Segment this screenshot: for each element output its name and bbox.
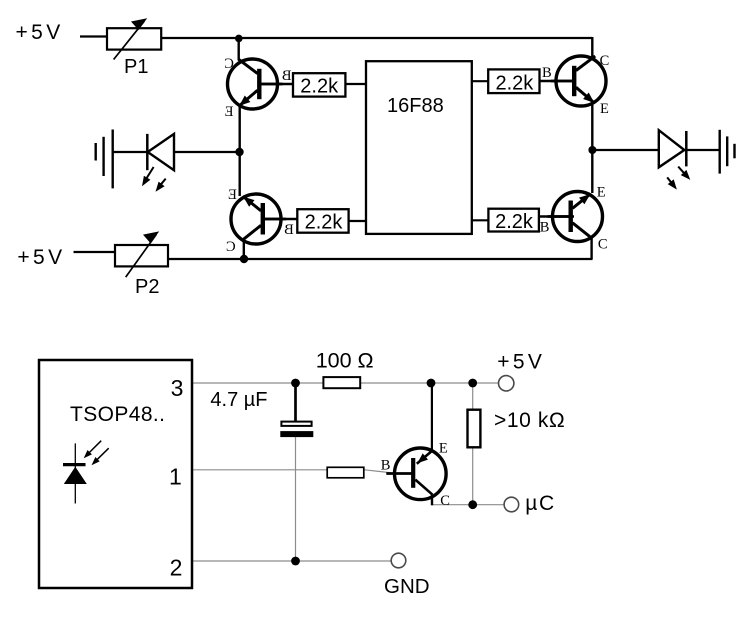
svg-text:P2: P2 — [135, 276, 159, 298]
svg-text:+5V: +5V — [497, 350, 545, 373]
svg-text:100 Ω: 100 Ω — [316, 348, 374, 372]
svg-text:C: C — [224, 56, 234, 72]
svg-text:µC: µC — [525, 492, 555, 515]
svg-text:GND: GND — [384, 575, 430, 598]
svg-text:C: C — [600, 53, 610, 69]
svg-text:E: E — [228, 187, 237, 203]
svg-text:+5V: +5V — [17, 246, 65, 269]
svg-text:E: E — [439, 440, 448, 456]
svg-text:B: B — [540, 220, 550, 236]
svg-text:>10 kΩ: >10 kΩ — [494, 409, 565, 432]
svg-text:2.2k: 2.2k — [495, 72, 534, 94]
svg-text:B: B — [381, 458, 391, 474]
svg-text:B: B — [542, 65, 552, 81]
svg-text:16F88: 16F88 — [387, 95, 444, 117]
svg-text:P1: P1 — [124, 56, 148, 78]
svg-text:B: B — [284, 222, 294, 238]
svg-text:1: 1 — [169, 463, 182, 489]
svg-text:B: B — [282, 68, 292, 84]
svg-text:E: E — [600, 101, 609, 117]
svg-text:2.2k: 2.2k — [495, 211, 534, 233]
svg-text:2.2k: 2.2k — [305, 212, 344, 234]
svg-text:E: E — [225, 104, 234, 120]
svg-text:C: C — [226, 239, 236, 255]
svg-text:C: C — [440, 493, 450, 509]
svg-text:3: 3 — [171, 375, 184, 401]
svg-text:C: C — [598, 236, 608, 252]
svg-text:4.7 µF: 4.7 µF — [210, 389, 267, 411]
svg-text:+5V: +5V — [16, 21, 64, 44]
svg-text:2.2k: 2.2k — [300, 75, 339, 97]
svg-text:2: 2 — [170, 554, 183, 580]
svg-text:TSOP48..: TSOP48.. — [70, 403, 165, 426]
svg-text:E: E — [597, 185, 606, 201]
